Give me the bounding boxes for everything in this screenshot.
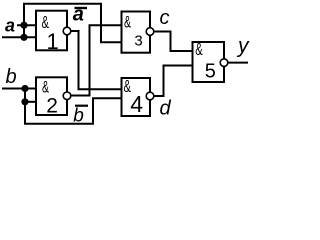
wire top rail net a (y=3.8) bbox=[23, 3, 101, 5]
bubble gate1 output bbox=[63, 27, 71, 35]
svg-text:3: 3 bbox=[134, 33, 142, 50]
junction dot a lower bbox=[20, 34, 27, 41]
bubble gate3 output bbox=[146, 28, 154, 36]
svg-text:&: & bbox=[124, 12, 131, 31]
wire net b to gate4 in2 (y=98.3) bbox=[92, 97, 122, 99]
macron of a-bar bbox=[75, 7, 88, 9]
junction dot b upper bbox=[21, 85, 28, 92]
wire net a to gate3 in2 (y=42.3) bbox=[100, 41, 122, 43]
wire d out of gate4 (y=96) bbox=[150, 95, 165, 97]
wire net b rise x=93 bbox=[92, 98, 94, 124]
wire bottom rail net b (y=123.7) bbox=[24, 123, 93, 125]
svg-text:2: 2 bbox=[46, 94, 58, 117]
amp gate5 bbox=[195, 39, 202, 59]
amp gate4 bbox=[124, 76, 131, 96]
wire a-bar out of gate1 (y=31) bbox=[67, 30, 79, 32]
wire y output (y=62.6) bbox=[224, 62, 248, 64]
wire b branch to gate2 in2 (y=101.8) bbox=[25, 101, 36, 103]
wire a-bar vertical x=78.5 bbox=[78, 30, 80, 89]
wire c to gate5 in1 (y=51) bbox=[170, 50, 193, 52]
amp gate1 bbox=[42, 12, 49, 32]
wire b-bar vertical x=89.5 bbox=[89, 25, 91, 96]
NAND gate 2 box bbox=[36, 77, 67, 115]
bubble gate4 output bbox=[146, 92, 154, 100]
NAND gate 4 box bbox=[122, 78, 151, 116]
svg-text:b: b bbox=[6, 66, 17, 88]
svg-text:1: 1 bbox=[47, 29, 59, 54]
wire b-bar to gate3 in1 (y=25.2) bbox=[89, 24, 122, 26]
wire d vertical x=163.5 bbox=[163, 66, 165, 98]
NAND gate 1 box bbox=[36, 11, 67, 51]
NAND gate 5 box bbox=[193, 42, 225, 82]
svg-text:&: & bbox=[195, 39, 202, 59]
junction dot b lower bbox=[21, 98, 28, 105]
svg-text:d: d bbox=[160, 98, 172, 120]
wire a upper branch to gate1 in1 (y=25.2) bbox=[17, 24, 36, 26]
amp gate3 bbox=[124, 12, 131, 31]
wire a-bar to gate4 in1 (y=89.3) bbox=[78, 88, 122, 90]
junction dot a upper bbox=[20, 22, 27, 29]
bubble gate2 output bbox=[63, 92, 71, 100]
svg-text:y: y bbox=[236, 35, 250, 58]
macron of b-bar bbox=[75, 105, 88, 107]
svg-text:&: & bbox=[42, 77, 49, 96]
wire net a drop x=101 bbox=[100, 3, 102, 43]
NAND gate 3 box bbox=[122, 12, 151, 53]
svg-text:a: a bbox=[5, 16, 15, 36]
wire b-bar out of gate2 (y=95.5) bbox=[67, 95, 90, 97]
bubble gate5 output bbox=[220, 59, 228, 67]
wire b vertical drop x=25 bbox=[24, 88, 26, 124]
wire b input main (y=88.5 from left edge) bbox=[2, 88, 36, 90]
wire a vertical riser x=24 bbox=[23, 4, 25, 39]
wire c out of gate3 (y=31.5) bbox=[150, 31, 171, 33]
svg-text:4: 4 bbox=[130, 91, 143, 117]
svg-text:c: c bbox=[160, 7, 170, 29]
wire c vertical x=170.5 bbox=[170, 31, 172, 52]
svg-text:b: b bbox=[73, 105, 84, 126]
amp gate2 bbox=[42, 77, 49, 96]
wire a input main (y=37.3 from left edge) bbox=[2, 36, 36, 38]
svg-text:5: 5 bbox=[205, 60, 216, 82]
wire d to gate5 in2 (y=65.5) bbox=[163, 65, 193, 67]
